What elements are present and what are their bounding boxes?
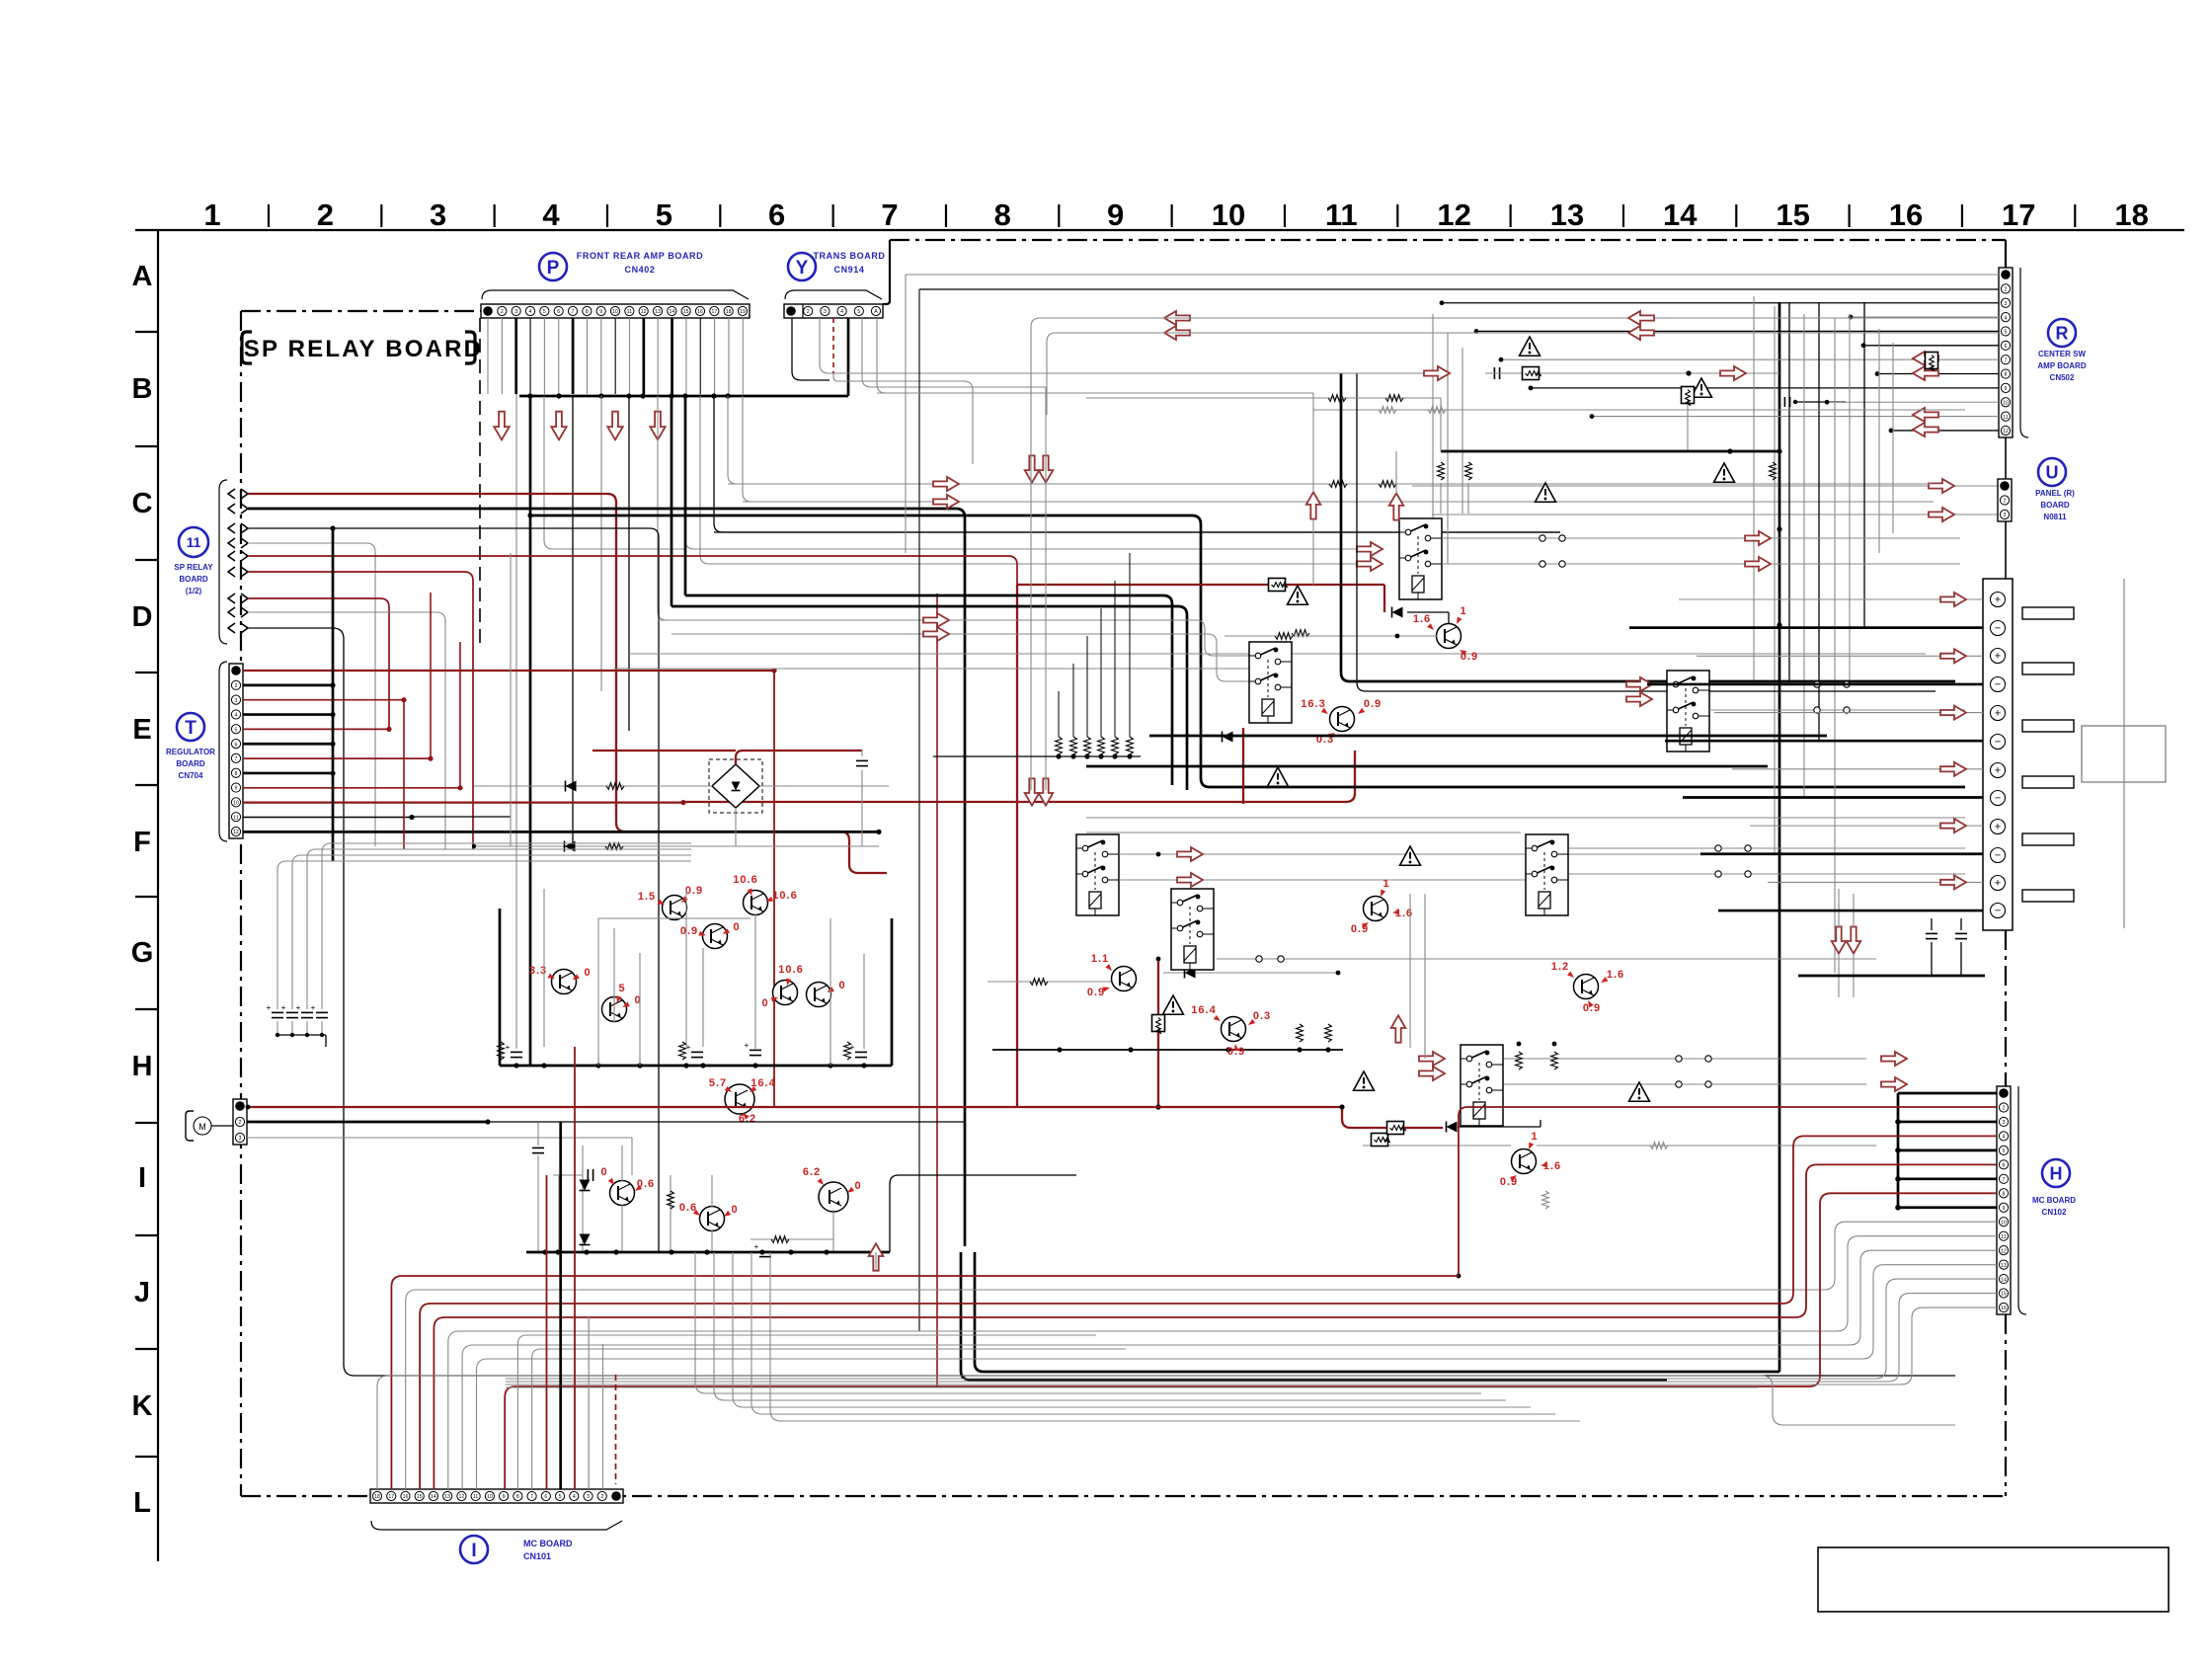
svg-text:0.9: 0.9 [680,925,698,937]
transistor Q17 [1191,1004,1271,1058]
boxres road585 [1269,579,1288,592]
svg-text:5: 5 [857,309,860,315]
svg-text:18: 18 [2114,198,2148,232]
svg-text:7: 7 [530,1494,533,1500]
border ruler lines [135,204,2184,1561]
wire RY3 outs [1709,681,1965,713]
wire road 642 [671,634,1249,681]
svg-text:7: 7 [2003,1177,2006,1183]
wire v P19 [743,396,1934,502]
svg-text:PANEL (R): PANEL (R) [2035,489,2075,498]
svg-text:REGULATOR: REGULATOR [166,748,215,756]
svg-text:H: H [132,1051,153,1082]
svg-text:3: 3 [239,1136,242,1142]
wire I verticals mid [547,1047,603,1489]
svg-text:MC BOARD: MC BOARD [523,1539,573,1548]
svg-text:0: 0 [731,1204,738,1216]
svg-text:14: 14 [2001,1277,2007,1283]
wire amp mesh1 [500,909,892,1069]
wire motor black [247,1119,538,1124]
svg-text:P: P [547,258,560,278]
wire P fan bus [519,393,848,398]
svg-text:CN102: CN102 [2042,1208,2067,1217]
board outline dash-dot top-right [890,239,2006,241]
svg-text:D: D [132,601,153,633]
wire v P3 [515,394,517,846]
connector U N0811 strip [1998,479,2012,521]
wire Q16 mesh [1363,1143,1876,1209]
transistor Q at 765,914 [733,874,797,915]
svg-text:J: J [134,1277,150,1308]
arrow pair road490 [933,477,959,509]
svg-text:2: 2 [2004,499,2007,505]
wire Y pin2 drop [820,318,1031,373]
connector P CN402 strip [481,304,750,318]
svg-text:0: 0 [600,1166,607,1178]
connector P text [577,251,704,275]
arrow down P1 [494,412,509,440]
svg-text:+: + [1995,821,2001,832]
wire bridge bot [735,808,737,846]
connector U text [2035,489,2075,521]
connector T circle label [177,713,204,741]
svg-text:8: 8 [2003,1191,2006,1197]
svg-text:G: G [131,937,154,969]
connector P circle label [539,253,567,280]
svg-text:R: R [2056,323,2069,343]
svg-text:10.6: 10.6 [772,890,797,902]
svg-text:+: + [267,1003,272,1012]
connector Y brace [785,290,882,299]
transistor Q at 622,1022 [602,983,642,1022]
wire red v1173 [1152,959,1165,1110]
arrow left R pair1 [1913,352,1938,380]
svg-text:10: 10 [612,309,618,315]
wire lamp cap [532,1122,544,1252]
wire Q12 links [1224,600,1449,639]
svg-text:I: I [138,1162,146,1194]
svg-text:15: 15 [2001,1292,2007,1298]
wire Y pin3 red dashed [832,318,834,373]
speaker labels right [2022,607,2074,902]
caps near terminal [1798,918,1985,976]
svg-text:0.9: 0.9 [1364,698,1382,710]
connector P brace [482,290,749,299]
wire H2 red riser [1457,1107,1997,1278]
relay RY6 [1526,834,1568,915]
wire thick box1 [1341,373,1955,681]
wire v P16 [700,396,1357,564]
svg-text:SP RELAY BOARD: SP RELAY BOARD [244,336,483,362]
wire road 614 thick [671,396,1187,790]
wire motor gray [247,1138,632,1175]
svg-text:1: 1 [203,198,220,232]
wire bus 1063 [992,1024,1343,1053]
wire v P4 thick [529,396,532,1066]
svg-text:11: 11 [233,815,238,821]
board outline dash-dot left [240,311,242,1496]
svg-text:17: 17 [388,1494,394,1500]
svg-text:12: 12 [1437,198,1470,232]
svg-text:12: 12 [2003,429,2009,435]
wire chev6b red [936,594,938,1386]
svg-text:Y: Y [796,258,809,278]
svg-text:BOARD: BOARD [2040,501,2070,510]
wire v1044 [1030,373,1032,790]
column numbers 1-18 [203,198,2148,232]
svg-text:16: 16 [697,309,703,315]
wire lamp bus [526,1249,890,1254]
cap right of bridge [856,751,868,846]
connector H CN102 strip [1997,1086,2011,1314]
wire chev2 thick [248,509,965,1246]
svg-text:+: + [754,1242,759,1251]
svg-text:H: H [2050,1163,2063,1183]
amp res caps [498,1041,867,1060]
wire H2 red [248,1104,1443,1128]
svg-text:10.6: 10.6 [733,874,757,886]
warning tri 1381 1096 [1354,1071,1375,1090]
svg-text:CN101: CN101 [523,1551,551,1561]
wire chev6 red [248,572,473,849]
wire v P17 [714,396,1560,532]
svg-text:+: + [850,1043,855,1052]
wire thick row776 [1086,765,1768,768]
warning tri 1565 500 [1536,483,1556,502]
connector T brace [219,662,227,841]
svg-text:12: 12 [233,830,239,835]
res mid 1405 415 [1313,407,1965,414]
svg-text:2: 2 [235,683,238,689]
wire I dashed red [615,1375,617,1484]
wire v P13 [658,396,936,620]
svg-text:2: 2 [2005,287,2008,293]
relay RY5 [1171,889,1214,970]
wire JK bundle [391,1136,1997,1489]
svg-text:7: 7 [235,756,238,762]
wire v P11 [628,396,630,731]
svg-text:10: 10 [233,801,239,807]
svg-text:0: 0 [584,967,591,979]
connector H circle label [2042,1159,2070,1187]
svg-text:TRANS BOARD: TRANS BOARD [813,251,885,261]
svg-text:19: 19 [740,309,746,315]
title SP RELAY BOARD bracket left [242,332,252,363]
boxres 1956 365 [1926,353,1938,371]
arrow right far pair [1881,1052,1907,1091]
svg-text:4: 4 [2005,315,2008,321]
wire Y pin1 drop [792,318,829,380]
svg-text:L: L [133,1487,151,1519]
wire right vertical bundle [1754,296,1893,973]
wire chev1 red [248,494,887,873]
svg-text:6: 6 [544,1494,547,1500]
svg-text:15: 15 [1776,198,1809,232]
cap group feeds [277,843,691,997]
wire road 398 [877,392,1313,394]
wire road 378r [973,366,1779,380]
svg-text:2: 2 [239,1120,242,1126]
resistor ladder bank [933,553,1141,759]
svg-text:11: 11 [627,309,632,315]
svg-text:−: − [1995,678,2001,690]
wire RY4 outs [1119,847,1965,887]
wire v P18 [728,396,1934,484]
svg-text:1.2: 1.2 [1551,961,1569,973]
wire RY2 coil red [1215,728,1243,804]
warning tri 1723 394 [1692,378,1712,397]
connector I text [523,1539,573,1561]
wire chev8 [248,612,445,849]
svg-text:11: 11 [187,534,201,550]
wire road 403 [1086,395,1441,402]
svg-text:CN704: CN704 [179,771,203,780]
wire lamp mesh3 [668,1175,712,1252]
wire P pin drops [488,318,743,394]
motor jack symbol [186,1111,211,1141]
svg-text:3: 3 [824,309,827,315]
svg-text:7: 7 [881,198,898,232]
connector I circle label [460,1536,488,1563]
arrow road642 [923,627,949,641]
svg-text:K: K [132,1390,153,1422]
svg-text:−: − [1995,736,2001,748]
svg-text:3: 3 [587,1494,590,1500]
connector Y CN914 strip [784,304,883,318]
svg-text:2: 2 [2003,1106,2006,1112]
svg-text:C: C [132,488,153,519]
svg-text:0: 0 [761,997,768,1009]
title SP RELAY BOARD text [244,336,483,362]
svg-text:+: + [1995,764,2001,776]
wire road 539 [714,531,1560,533]
transistor Q12 [1413,605,1478,663]
cap group bottom left [267,997,328,1047]
svg-text:9: 9 [599,309,602,315]
board outline dash-dot bottom [241,1495,2006,1497]
wire RY5 coil diode [1163,968,1340,979]
wire thick row745 [1149,735,1827,738]
svg-text:14: 14 [1663,198,1698,232]
wire Y pin3 cont [833,373,973,464]
svg-text:4: 4 [573,1494,576,1500]
wire road 677 [614,668,1251,670]
svg-text:16.4: 16.4 [1191,1004,1216,1016]
warning tri 1549 352 [1520,337,1540,356]
wire v P5 [544,396,685,549]
svg-text:4: 4 [542,198,560,232]
connector R text [2037,350,2086,382]
svg-text:2: 2 [317,198,334,232]
wire bridge right [759,785,889,787]
warning tri 1314 604 [1288,586,1308,604]
arrow left mid pair [1164,311,1190,340]
bridge rectifier diamond [712,764,759,808]
svg-text:E: E [132,714,151,746]
svg-text:CN402: CN402 [624,265,655,275]
warning tri 1428 868 [1400,846,1421,865]
wire thick L 973 [961,1252,1667,1380]
speaker big box [2082,726,2166,782]
res road490 [1329,481,1396,488]
wire K lines from amp [695,1252,1580,1421]
boxres 1709 400 [1682,387,1695,452]
svg-text:+: + [1995,650,2001,662]
wire amp rail2 [472,841,879,852]
svg-text:1.5: 1.5 [638,891,656,903]
arrow RY3 in [1626,677,1652,706]
svg-text:0: 0 [838,980,845,991]
svg-text:0.9: 0.9 [1087,987,1105,998]
arrow down P3 [607,412,622,440]
svg-text:9: 9 [235,786,238,792]
wire thick road 457 [1438,398,1779,514]
wire RY5 out oc [1156,956,1876,962]
svg-text:5: 5 [2003,1148,2006,1154]
svg-text:12: 12 [641,309,647,315]
boxres 1397 1154 [1372,1134,1390,1147]
svg-text:T: T [185,718,197,739]
row letters A-L [131,261,154,1519]
arrow down P2 [551,412,566,440]
svg-text:+: + [281,1003,286,1012]
speaker vertical line [2123,579,2125,928]
svg-text:15: 15 [683,309,689,315]
connector I CN101 strip [370,1489,623,1503]
transistor Q at 829,1007 [807,980,846,1007]
wire RY6 outs [1569,845,1965,877]
svg-text:6: 6 [2003,1163,2006,1169]
wire road 628 [658,620,1249,656]
wire road 490 [728,483,1934,485]
wire H pin stubs [1895,1093,1997,1211]
svg-text:(1/2): (1/2) [186,587,202,595]
svg-text:1: 1 [1460,605,1466,617]
connector Y text [813,251,885,275]
svg-text:CENTER SW: CENTER SW [2038,350,2086,358]
svg-text:4: 4 [529,309,532,315]
svg-text:8: 8 [586,309,589,315]
bridge rectifier dashed box [709,759,762,813]
diode RY7 coil [1447,1120,1541,1133]
wire T red main [683,751,1355,802]
transistor Q16 [1500,1131,1561,1188]
wire thick box2 [1357,373,1935,691]
arrow left R pair2 [1913,408,1938,436]
svg-text:9: 9 [1107,198,1124,232]
up arrow RY1 [1389,451,1404,520]
transistor Q11 big [803,1166,862,1212]
wire lamp mesh2 [580,1146,623,1252]
svg-text:10: 10 [2003,400,2009,406]
svg-text:15: 15 [417,1494,423,1500]
wire bridge left [474,781,712,792]
svg-text:M: M [198,1122,206,1132]
relay RY2 [1249,630,1309,723]
svg-text:5: 5 [618,983,625,994]
wire Y pin4 drop [847,318,850,396]
svg-text:10: 10 [1212,198,1245,232]
svg-text:B: B [132,373,153,405]
svg-text:14: 14 [431,1494,436,1500]
motor connector strip [211,1099,247,1145]
svg-text:+: + [1995,877,2001,889]
wire Q18 base [987,979,1111,986]
connector SP relay chevron pins [219,480,248,644]
transistor Q13 [1301,698,1382,746]
wire R1 road [906,275,1999,553]
svg-text:13: 13 [1550,198,1584,232]
svg-text:10: 10 [487,1494,493,1500]
svg-text:2: 2 [501,309,504,315]
svg-text:BOARD: BOARD [176,759,205,768]
svg-text:−: − [1995,849,2001,861]
boxres motor red [1387,1122,1406,1135]
wire chev9 [248,628,1955,1376]
svg-text:9: 9 [503,1494,506,1500]
wire Y pin6 drop [877,318,1096,393]
wire chev4 [248,543,375,846]
wire lamp right [890,1175,1076,1252]
svg-text:BOARD: BOARD [179,575,208,584]
warning tri 1660 1107 [1629,1082,1650,1101]
svg-text:CN502: CN502 [2050,373,2075,382]
connector U circle label [2038,458,2066,486]
wire lamp mesh4 [750,1212,833,1257]
svg-text:1.6: 1.6 [1607,969,1624,981]
svg-text:−: − [1995,905,2001,916]
wire v P15 [685,396,1357,549]
svg-text:3: 3 [235,698,238,704]
svg-text:18: 18 [374,1494,380,1500]
wire R pin feeds [1440,300,1999,433]
res pair RY7 [1516,1042,1558,1069]
connector T CN704 strip [229,664,243,838]
wire chev7 red [248,598,389,729]
svg-text:17: 17 [2002,198,2035,232]
svg-text:9: 9 [2003,1206,2006,1212]
svg-text:1: 1 [1531,1131,1538,1143]
svg-text:−: − [1995,622,2001,634]
wire terminal feeds [1629,593,1983,911]
svg-text:SP RELAY: SP RELAY [174,563,213,572]
svg-text:18: 18 [726,309,732,315]
svg-text:2: 2 [600,1494,603,1500]
svg-text:0.9: 0.9 [685,885,703,897]
svg-text:11: 11 [473,1494,478,1500]
relay RY1 [1399,518,1442,599]
svg-text:6: 6 [557,309,560,315]
svg-text:16: 16 [2001,1306,2007,1311]
svg-text:3: 3 [2005,301,2008,307]
relay RY3 [1667,671,1709,752]
transistor Q10 [679,1202,739,1231]
svg-text:7: 7 [572,309,575,315]
wire U feeds [1412,479,1998,521]
svg-text:12: 12 [459,1494,465,1500]
wire amp mesh4 [686,889,755,1049]
warning tri 1294 788 [1268,767,1289,786]
arrow left pair x1660 [1628,311,1654,340]
title block [1818,1547,2169,1612]
svg-text:3: 3 [2004,513,2007,518]
svg-text:0.3: 0.3 [1253,1010,1271,1022]
svg-text:10.6: 10.6 [778,964,803,976]
wire road 508 [743,501,1934,503]
down arrow pair 2 [1025,778,1054,805]
connector H brace [2018,1086,2026,1314]
svg-text:3: 3 [514,309,517,315]
